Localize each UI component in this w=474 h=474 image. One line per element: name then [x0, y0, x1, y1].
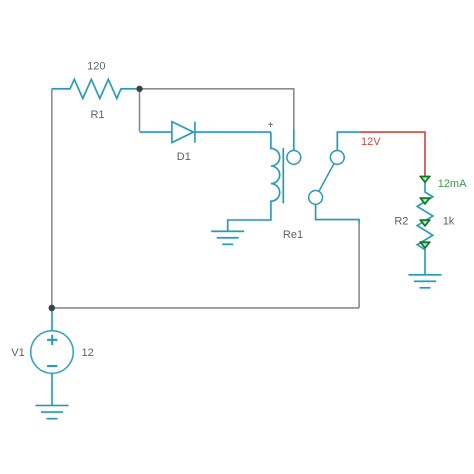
svg-text:V1: V1 — [11, 347, 24, 359]
svg-text:Re1: Re1 — [283, 229, 303, 241]
svg-text:+: + — [268, 120, 274, 131]
svg-text:12mA: 12mA — [438, 178, 467, 190]
svg-text:12: 12 — [81, 347, 93, 359]
svg-text:D1: D1 — [177, 151, 191, 163]
svg-text:120: 120 — [87, 60, 105, 72]
svg-text:1k: 1k — [443, 215, 455, 227]
svg-text:R2: R2 — [394, 215, 408, 227]
svg-text:R1: R1 — [90, 109, 104, 121]
svg-text:12V: 12V — [361, 136, 381, 148]
